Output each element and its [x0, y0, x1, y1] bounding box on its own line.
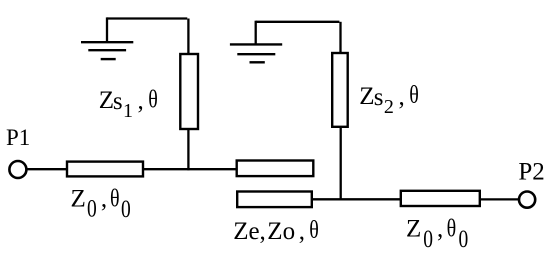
svg-text:P2: P2	[518, 158, 544, 185]
svg-text:θ: θ	[148, 85, 158, 113]
svg-text:0: 0	[459, 225, 469, 253]
port P1 terminal	[9, 161, 26, 178]
label Z0 , theta0 (left)	[71, 184, 131, 222]
wire P1 to TL1	[27, 168, 67, 170]
wire ground 2 drop	[255, 21, 257, 45]
svg-text:,: ,	[299, 218, 305, 245]
svg-text:,: ,	[399, 84, 405, 111]
transmission line TL2 Z0,theta0	[401, 191, 480, 206]
svg-text:θ: θ	[110, 184, 120, 212]
stub Zs2	[332, 53, 348, 127]
coupled line CL top conductor	[237, 161, 314, 177]
svg-text:2: 2	[384, 96, 394, 118]
wire stub1 top riser	[187, 19, 189, 55]
svg-text:s: s	[374, 84, 384, 111]
wire coupled line to TL2 (through stub2 node)	[312, 198, 401, 200]
svg-text:P1: P1	[6, 125, 30, 150]
svg-text:0: 0	[87, 194, 97, 222]
svg-text:Z: Z	[99, 87, 114, 114]
svg-text:θ: θ	[309, 216, 319, 244]
svg-text:1: 1	[123, 100, 133, 122]
wire top horizontal to ground 2	[256, 21, 340, 23]
label Ze, Zo , theta	[233, 216, 319, 245]
svg-text:0: 0	[121, 194, 131, 222]
wire stub1 to node	[187, 129, 189, 170]
transmission line TL1 Z0,theta0	[67, 162, 143, 177]
wire TL1 to coupled line (through stub1 node)	[143, 168, 237, 170]
label Zs1 , theta	[99, 85, 158, 122]
svg-text:,: ,	[138, 87, 144, 114]
wire stub2 to node	[340, 127, 342, 200]
svg-text:Zo: Zo	[267, 218, 295, 245]
svg-text:,: ,	[101, 185, 107, 212]
wire TL2 to P2	[480, 198, 519, 200]
label Z0 , theta0 (right)	[406, 214, 468, 252]
svg-text:,: ,	[437, 215, 443, 242]
svg-text:θ: θ	[409, 81, 419, 109]
svg-text:θ: θ	[447, 214, 457, 242]
svg-text:s: s	[113, 88, 123, 115]
svg-text:Z: Z	[71, 185, 86, 212]
wire ground 1 drop	[106, 17, 108, 42]
coupled line CL bottom conductor	[237, 192, 312, 208]
wire top horizontal to ground 1	[107, 17, 187, 19]
port P2 terminal	[519, 192, 535, 208]
label Zs2 , theta	[359, 81, 418, 118]
ground G1	[81, 42, 133, 59]
ground G2	[230, 44, 282, 62]
svg-text:Ze,: Ze,	[233, 218, 266, 245]
svg-text:0: 0	[423, 225, 433, 253]
svg-text:Z: Z	[359, 83, 374, 110]
wire stub2 top riser	[339, 22, 341, 54]
stub Zs1	[180, 54, 198, 129]
svg-text:Z: Z	[406, 215, 421, 242]
